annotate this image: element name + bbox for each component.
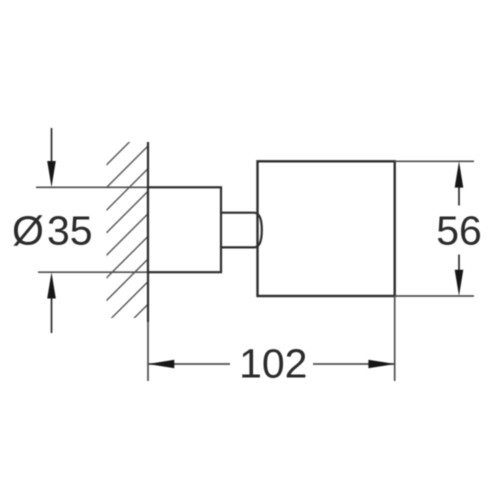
svg-text:35: 35 <box>47 208 93 254</box>
rosette (wall mount escutcheon) <box>148 187 221 272</box>
extension line top right (56 dim) <box>395 160 474 162</box>
dimension line Ø35 top <box>36 186 148 188</box>
cup (holder body) <box>258 161 395 296</box>
stem (connector post) <box>221 213 262 248</box>
dimension line Ø35 bottom <box>38 271 148 273</box>
arrow Ø35 bottom (pointing up) <box>51 297 53 333</box>
cup right edge extension down to 102 dimension <box>394 296 396 381</box>
wall face line <box>147 142 149 322</box>
wall hatching <box>102 119 152 372</box>
wall extension line down to 102 dimension <box>147 322 149 381</box>
dimension 102 horizontal line with arrows <box>148 363 230 365</box>
dimension 56 vertical line with arrows <box>458 186 460 206</box>
extension line bottom right (56 dim) <box>395 295 474 297</box>
svg-text:102: 102 <box>239 341 307 387</box>
arrow Ø35 top (pointing down) <box>51 128 53 163</box>
svg-text:Ø: Ø <box>12 208 44 254</box>
svg-text:56: 56 <box>436 208 482 254</box>
